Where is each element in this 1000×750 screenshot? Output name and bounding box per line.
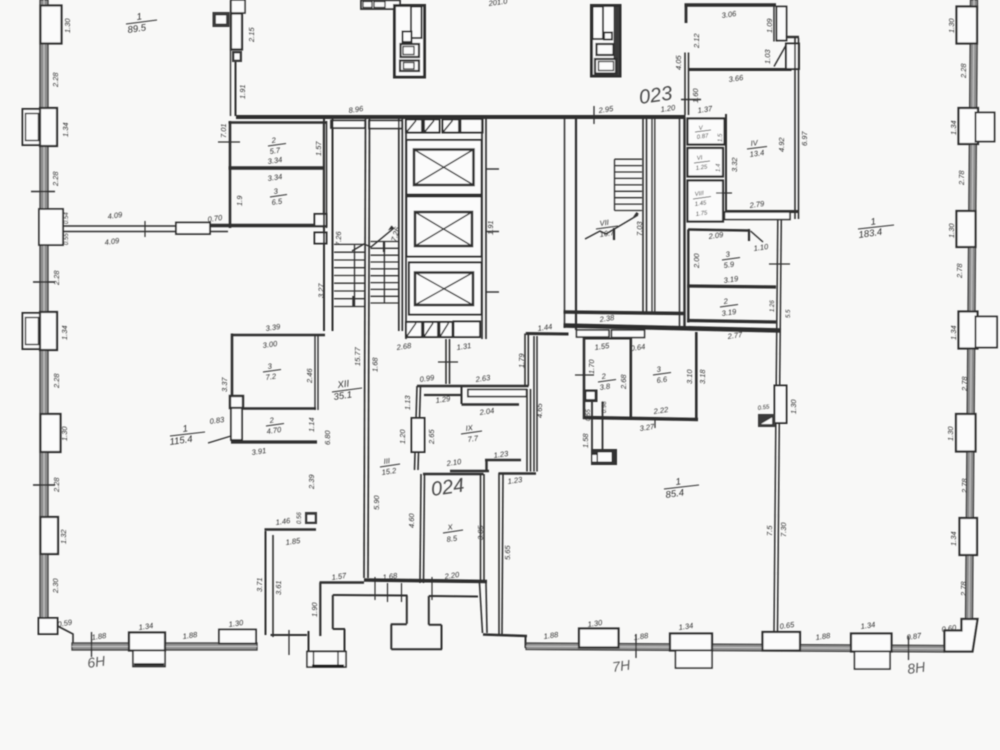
svg-text:3.37: 3.37 <box>220 377 229 392</box>
svg-text:7.30: 7.30 <box>779 522 788 537</box>
room 2/3.8 walls <box>583 337 586 419</box>
wall: right exterior wall band <box>966 0 978 620</box>
wall: 1.57 top ledge <box>320 581 365 583</box>
svg-text:2.46: 2.46 <box>305 368 314 384</box>
vent shaft 1 <box>395 6 425 78</box>
pier opening (0.54/0.55) <box>39 209 63 245</box>
svg-text:2.28: 2.28 <box>51 171 60 187</box>
wall: corridor wall (4.09) <box>63 225 228 227</box>
svg-text:5.65: 5.65 <box>503 545 512 560</box>
wall: west pair of 023 zone <box>684 53 686 116</box>
window W2 (1.34) outer leaf <box>23 109 42 145</box>
wall: rooms divider <box>687 286 776 287</box>
black element lower <box>591 449 617 465</box>
tick on west wall <box>218 141 240 143</box>
wall: bottom-left corner block <box>39 618 58 634</box>
lintel under wall A <box>468 390 527 397</box>
extension ticks below bottom wall <box>387 583 389 602</box>
window under porch <box>307 652 346 668</box>
svg-text:1.91: 1.91 <box>486 220 495 235</box>
svg-text:4.60: 4.60 <box>407 513 416 528</box>
window W2 (1.34) <box>40 108 57 146</box>
svg-text:1.90: 1.90 <box>310 602 319 617</box>
svg-text:7.5: 7.5 <box>765 525 774 536</box>
elevator 1 outer box <box>407 140 482 195</box>
wall: facade line y595 <box>333 594 408 597</box>
tick porch <box>288 630 290 655</box>
svg-text:3.61: 3.61 <box>274 580 283 595</box>
wall: inner vertical pair (4.65) <box>533 336 535 472</box>
window RW3 (1.30) <box>957 211 976 247</box>
svg-text:1.4: 1.4 <box>716 163 722 172</box>
svg-text:1.30: 1.30 <box>60 426 69 441</box>
svg-text:1.30: 1.30 <box>947 223 956 238</box>
svg-text:1.09: 1.09 <box>765 18 774 33</box>
wall: room 3/5.9 west <box>687 230 689 323</box>
svg-text:6.6: 6.6 <box>656 375 668 385</box>
room IX walls <box>424 394 461 396</box>
svg-text:1.03: 1.03 <box>763 49 772 64</box>
svg-text:8Н: 8Н <box>906 659 927 677</box>
svg-text:15.77: 15.77 <box>353 346 362 366</box>
tick crossing wall <box>769 263 790 265</box>
svg-text:1.34: 1.34 <box>61 122 70 137</box>
wall: room 2 bottom <box>687 321 776 323</box>
svg-text:8.5: 8.5 <box>446 534 458 544</box>
wall: raised notch (1.30) <box>219 630 256 644</box>
svg-text:1.9: 1.9 <box>235 195 244 206</box>
svg-text:1.14: 1.14 <box>307 417 316 432</box>
wall: room IV east pair <box>794 38 796 219</box>
window W3 (1.34) outer leaf <box>23 313 42 349</box>
window BR2 (1.34) <box>670 634 712 651</box>
window W4 (1.30) <box>41 414 61 452</box>
svg-text:1.5: 1.5 <box>718 133 724 142</box>
room 2/3.8 + 3/6.6 bottom wall <box>583 418 698 420</box>
svg-text:1.30: 1.30 <box>63 18 72 33</box>
stair arrow flight1 <box>352 296 354 307</box>
svg-text:4.05: 4.05 <box>674 55 683 70</box>
svg-text:1.34: 1.34 <box>949 120 958 135</box>
wall: bay right edge pair <box>480 583 483 633</box>
svg-text:1.79: 1.79 <box>517 353 526 368</box>
wall: left exterior wall band <box>40 0 48 618</box>
tick <box>908 636 910 660</box>
elevator 3 outer box <box>409 263 482 315</box>
svg-text:1.91: 1.91 <box>238 84 247 99</box>
lintels under wall2 <box>577 330 610 337</box>
tooth bay A outline <box>406 596 408 624</box>
wall: room block west wall <box>229 121 232 228</box>
svg-text:1.13: 1.13 <box>403 395 412 410</box>
window BL1 (1.34) <box>129 633 165 651</box>
wall: room 2 top wall <box>229 121 327 124</box>
svg-text:5.5: 5.5 <box>786 309 792 318</box>
svg-text:3.71: 3.71 <box>255 577 264 592</box>
wall: west pair of III corridor <box>415 386 418 470</box>
wall: long pair down from step <box>498 473 500 634</box>
vent box small <box>232 51 242 62</box>
elevator side ticks <box>486 168 499 170</box>
tick on bottom wall <box>91 632 93 657</box>
wall: step below IX <box>485 459 521 461</box>
svg-text:0.55: 0.55 <box>64 233 70 245</box>
wall: room IV bottom <box>726 210 798 213</box>
svg-text:0.56: 0.56 <box>297 512 303 524</box>
stairs 2 treads <box>615 159 643 210</box>
svg-text:3.10: 3.10 <box>685 369 694 384</box>
wall: ledge step (0.65 area left) <box>483 635 527 637</box>
svg-text:1.68: 1.68 <box>371 357 380 372</box>
elevator 2 outer box <box>407 197 482 257</box>
vent boxes bottom (slashed) <box>406 322 422 337</box>
wall: core top wall <box>236 115 686 119</box>
svg-text:3.27: 3.27 <box>317 283 326 298</box>
tick <box>144 221 146 237</box>
wall: top-right outer wall (3.06) <box>685 3 777 6</box>
svg-text:1.34: 1.34 <box>60 325 69 340</box>
svg-text:6.80: 6.80 <box>323 430 332 445</box>
tick on 3.27 dim <box>654 419 656 428</box>
wall: east wall of small rooms / west of IV <box>725 114 727 219</box>
svg-text:1.32: 1.32 <box>59 529 68 544</box>
wall A horizontal <box>417 385 529 388</box>
svg-text:5.9: 5.9 <box>723 260 735 270</box>
corridor walls below shaft <box>591 402 593 450</box>
svg-text:1.26: 1.26 <box>770 300 776 312</box>
svg-text:2.78: 2.78 <box>957 170 966 186</box>
wall: room 2/4.70 divider <box>242 407 316 410</box>
wall: right block west wall pair <box>564 115 566 328</box>
svg-text:024: 024 <box>430 475 466 501</box>
svg-text:6.5: 6.5 <box>271 197 283 207</box>
rooms V / VI / VIII boxes <box>688 119 725 145</box>
wall: room IX east pair <box>526 389 528 472</box>
wall: top pilaster line <box>230 0 232 116</box>
vent shaft 2 (top) <box>592 6 621 77</box>
wall: corridor east pair <box>651 117 653 312</box>
svg-text:1.34: 1.34 <box>949 325 958 340</box>
wall: room 3/7.2 block <box>233 334 326 337</box>
wall: stair2 east wall pair <box>642 117 644 314</box>
pier box at top <box>231 0 245 13</box>
wall: porch west wall (3.71/3.61) <box>265 531 267 635</box>
svg-text:III: III <box>383 456 390 466</box>
wall: right pair with window (1.09) <box>773 6 775 42</box>
svg-text:1.57: 1.57 <box>314 141 323 156</box>
lintel in that wall <box>412 418 425 452</box>
wall: stair center wall pair <box>364 119 366 578</box>
room 3/6.6 east wall <box>695 332 698 420</box>
svg-text:2.39: 2.39 <box>307 474 316 490</box>
bracket element top-left of pier <box>213 12 230 27</box>
svg-text:2.28: 2.28 <box>51 72 60 88</box>
door swing 115.4 <box>208 436 231 443</box>
elevator 3 cab with X <box>415 273 473 306</box>
tick on west wall of 3.8 <box>575 374 594 376</box>
window BL1 lower leaf <box>133 651 165 667</box>
svg-text:2.68: 2.68 <box>619 374 628 390</box>
pier block (0.65) <box>763 632 801 651</box>
svg-text:2.28: 2.28 <box>959 63 968 79</box>
svg-text:2.12: 2.12 <box>692 33 701 49</box>
svg-text:4.92: 4.92 <box>777 137 786 152</box>
window BR1 (1.30) <box>579 629 619 648</box>
wall: corner step to bottom band <box>58 626 74 643</box>
wall: pair below elevator block <box>445 339 447 384</box>
svg-text:023: 023 <box>638 83 674 109</box>
svg-text:4.65: 4.65 <box>535 403 544 418</box>
wall: elevator shaft outer walls <box>405 119 407 339</box>
stair up arrow <box>352 228 394 251</box>
wall: room 3/5.9 top <box>688 230 748 231</box>
wall: porch bottom segments <box>271 634 308 636</box>
wall: 1.44 wall segment (y333) <box>526 332 569 336</box>
svg-text:2.78: 2.78 <box>959 581 968 597</box>
window RW2 (1.34) <box>959 108 979 144</box>
wall: bottom exterior band (right section, slightly skewed) <box>526 643 944 652</box>
svg-text:2.30: 2.30 <box>51 578 60 594</box>
dim line at 023 <box>681 99 701 101</box>
door lintel boxes in east wall <box>315 214 327 226</box>
wall: bottom-right corner step <box>945 619 978 652</box>
svg-text:3.18: 3.18 <box>698 369 707 384</box>
wall: room 3 bottom wall <box>210 224 327 227</box>
lintel in corridor wall <box>176 223 210 235</box>
svg-text:1.34: 1.34 <box>949 531 958 546</box>
window W3 (1.34) <box>40 312 57 350</box>
svg-text:1.70: 1.70 <box>587 359 596 374</box>
svg-text:5.90: 5.90 <box>372 495 381 510</box>
svg-text:1.20: 1.20 <box>398 429 407 444</box>
bracket (0.55) <box>758 414 775 427</box>
svg-text:2.78: 2.78 <box>960 478 969 494</box>
stair 2 arrow <box>585 215 638 239</box>
wall: 3.66 wall <box>688 68 792 71</box>
black shaft box <box>583 390 598 403</box>
door swing 5.9 <box>751 231 764 242</box>
svg-text:1.30: 1.30 <box>947 18 956 33</box>
wall: bottom exterior wall band (left section) <box>72 643 257 650</box>
window W5 (1.32) <box>41 517 59 554</box>
tick marks on left wall <box>31 191 55 193</box>
svg-text:2.78: 2.78 <box>960 376 969 392</box>
svg-text:3.8: 3.8 <box>599 382 611 392</box>
window W1 (1.30) <box>41 6 62 44</box>
svg-text:2.78: 2.78 <box>955 263 964 279</box>
svg-text:3.85: 3.85 <box>476 525 485 540</box>
wall: room III/X bottom wall <box>364 580 487 582</box>
wall: stair east wall pair <box>398 119 400 331</box>
bracket element (0.56) <box>305 512 317 524</box>
svg-text:1.58: 1.58 <box>581 433 590 448</box>
svg-text:2.28: 2.28 <box>52 477 61 493</box>
elevator 2 cab with X <box>415 212 472 246</box>
wall: stairwell west wall lines <box>323 119 325 331</box>
window RW6 (1.34) <box>960 518 978 555</box>
tick <box>635 634 637 658</box>
tick on top wall <box>593 106 595 124</box>
elevator 1 cab with X <box>414 150 474 186</box>
window RW5 (1.30) <box>956 414 976 452</box>
wall: room block east wall pair <box>323 121 325 228</box>
wall: west vertical of teeth zone <box>319 583 321 637</box>
svg-text:7.26: 7.26 <box>334 231 343 246</box>
door jamb box <box>786 44 799 70</box>
room X walls <box>423 473 484 476</box>
svg-text:2.28: 2.28 <box>52 373 61 389</box>
wall: big wall y322-330 (wall 2) <box>564 326 782 331</box>
door pier room 115.4 <box>230 396 243 408</box>
svg-text:1.30: 1.30 <box>946 426 955 441</box>
wall: porch top wall (1.85) <box>265 528 317 530</box>
door swing (1.03) <box>774 44 787 67</box>
svg-text:2.28: 2.28 <box>52 270 61 286</box>
vent boxes top (slashed) <box>406 120 422 133</box>
window RW4 (1.34) <box>959 312 978 349</box>
svg-text:7Н: 7Н <box>611 657 632 675</box>
svg-text:1.30: 1.30 <box>789 399 798 414</box>
svg-text:1.60: 1.60 <box>691 88 700 103</box>
wall: stair2 bottom wall <box>564 312 686 314</box>
svg-text:6Н: 6Н <box>86 653 107 671</box>
svg-text:2.00: 2.00 <box>692 253 701 269</box>
wall: long east wall pair (x777-781) <box>776 219 778 385</box>
wall: rooms 2/3 divider <box>229 166 325 169</box>
stairs flight 1 (left) treads <box>334 244 365 306</box>
svg-text:3.32: 3.32 <box>730 157 739 172</box>
svg-text:VII: VII <box>599 218 609 228</box>
wall: corner pair down to wall A <box>524 334 526 387</box>
svg-text:0.54: 0.54 <box>64 212 70 224</box>
wall: segment right of step <box>499 472 537 475</box>
window RW1 (1.30) <box>957 7 978 44</box>
tick <box>438 361 458 363</box>
svg-text:6.97: 6.97 <box>800 131 809 146</box>
stairs flight 2 (right) treads <box>371 242 399 304</box>
wall: room 2/4.70 bottom <box>231 440 317 443</box>
window in wall (1.30) <box>775 386 787 424</box>
svg-text:2.15: 2.15 <box>247 27 256 43</box>
window BR3 (1.34) <box>851 634 892 652</box>
svg-text:7.01: 7.01 <box>219 123 228 138</box>
svg-text:7.2: 7.2 <box>265 372 277 382</box>
svg-text:2.65: 2.65 <box>427 429 436 445</box>
vent shaft bar top <box>361 1 400 10</box>
lintels under top wall <box>331 121 365 129</box>
svg-text:7.7: 7.7 <box>467 434 479 444</box>
